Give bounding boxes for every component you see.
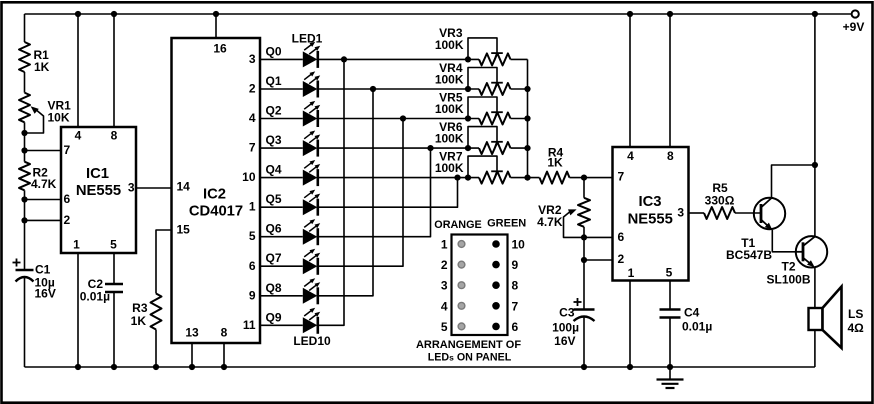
- svg-text:100K: 100K: [435, 161, 464, 175]
- svg-text:5: 5: [441, 320, 448, 334]
- wire IC3 pin5 to C4: [669, 281, 671, 310]
- junction VR2/pin6 node: [581, 234, 587, 240]
- wire IC1 pin5 to C2: [113, 253, 115, 284]
- junction VR3 wiper tie: [465, 56, 471, 62]
- svg-text:100µ: 100µ: [552, 321, 579, 335]
- svg-text:4: 4: [627, 149, 634, 163]
- resistor R3 1K: [131, 294, 162, 330]
- junction R3 ground: [153, 364, 159, 370]
- junction IC3 pin8 rail: [667, 11, 673, 17]
- wire IC1 pin8 to rail: [113, 14, 115, 127]
- junction pin8 rail: [111, 11, 117, 17]
- wire T1 collector to +9V bus: [772, 165, 815, 198]
- LED2: [303, 71, 320, 97]
- svg-text:LED1: LED1: [292, 32, 323, 46]
- wire pin6 node down to pin2 node: [583, 237, 585, 260]
- svg-text:7: 7: [64, 143, 71, 157]
- junction VR7 wiper tie: [465, 175, 471, 181]
- svg-text:10: 10: [242, 170, 256, 184]
- wire R1 to VR1: [24, 72, 26, 93]
- wire pin6 to node: [25, 199, 62, 201]
- svg-text:16V: 16V: [554, 334, 575, 348]
- wire ground rail: [25, 366, 815, 368]
- junction pin7 tap: [21, 147, 27, 153]
- junction pair tap Q4/Q5: [454, 175, 460, 181]
- wire LED3 cathode to VR5: [319, 118, 479, 120]
- svg-text:4Ω: 4Ω: [848, 321, 865, 335]
- wire pin2 node to IC3 pin2: [584, 259, 613, 261]
- wire T1 emitter to T2 base: [772, 230, 796, 252]
- svg-text:ARRANGEMENT OF: ARRANGEMENT OF: [416, 339, 521, 351]
- resistor R5 330ohm: [704, 181, 735, 219]
- wire IC2 output to LED1: [260, 58, 303, 60]
- svg-text:Q8: Q8: [266, 281, 282, 295]
- svg-text:NE555: NE555: [628, 212, 673, 228]
- svg-text:2: 2: [441, 258, 448, 272]
- svg-text:0.01µ: 0.01µ: [80, 290, 110, 304]
- panel orange LED 1: [458, 241, 465, 248]
- wire LED4 cathode to VR6: [319, 147, 479, 149]
- resistor R2 4.7K: [19, 162, 57, 191]
- svg-text:3: 3: [128, 181, 135, 195]
- LED10: [293, 308, 331, 348]
- svg-text:Q6: Q6: [266, 222, 282, 236]
- wire LED7 cathode up to Q3 row: [319, 148, 431, 237]
- svg-text:6: 6: [512, 320, 519, 334]
- svg-text:IC3: IC3: [638, 194, 661, 210]
- wire R3 to ground: [155, 330, 157, 368]
- svg-text:LEDs ON PANEL: LEDs ON PANEL: [428, 352, 512, 364]
- junction pair tap Q3/Q6: [427, 145, 433, 151]
- svg-text:7: 7: [618, 170, 625, 184]
- potentiometer VR6 100K: [435, 120, 511, 154]
- svg-text:9: 9: [512, 258, 519, 272]
- svg-text:Q9: Q9: [266, 310, 282, 324]
- junction bus rail: [812, 11, 818, 17]
- wire IC3 pin1 to ground: [629, 281, 631, 368]
- wire VR output bus: [527, 59, 529, 177]
- panel green LED 7: [492, 302, 500, 310]
- wire VR1 to R2 (junctions at wiper and pin7 tap): [24, 122, 26, 161]
- svg-text:Q3: Q3: [266, 133, 282, 147]
- wire IC2 output to LED4: [260, 147, 303, 149]
- panel orange LED 2: [458, 261, 465, 268]
- svg-text:8: 8: [512, 279, 519, 293]
- svg-text:4: 4: [441, 299, 448, 313]
- wire R4 to IC3 pin7: [570, 177, 613, 179]
- junction pin16 rail: [213, 11, 219, 17]
- svg-text:LED10: LED10: [293, 334, 331, 348]
- svg-text:2: 2: [618, 252, 625, 266]
- wire IC3 pin4 to rail: [629, 14, 631, 147]
- wire IC1 pin4 to rail: [77, 14, 79, 127]
- speaker LS 4ohm: [809, 287, 865, 349]
- svg-text:1: 1: [73, 238, 80, 252]
- svg-text:6: 6: [618, 230, 625, 244]
- wire IC2 output to LED2: [260, 88, 303, 90]
- svg-text:ORANGE: ORANGE: [434, 219, 481, 231]
- junction VR4 wiper tie: [465, 86, 471, 92]
- wire LED6 cathode up to Q4 row: [319, 178, 458, 208]
- junction VR6 output bus: [524, 145, 530, 151]
- svg-text:13: 13: [185, 326, 199, 340]
- resistor R4 1K: [540, 146, 570, 184]
- LED9: [303, 278, 320, 304]
- junction IC3 pin1 ground: [627, 364, 633, 370]
- wire VR7 output to R4: [511, 177, 540, 179]
- junction pin6 tap: [21, 196, 27, 202]
- transistor T2 SL100B: [766, 236, 827, 286]
- svg-text:Q1: Q1: [266, 74, 282, 88]
- wire R5 to T1 base: [735, 212, 761, 214]
- svg-text:SL100B: SL100B: [766, 273, 810, 287]
- potentiometer VR1 10K: [19, 93, 71, 133]
- potentiometer VR5 100K: [435, 90, 511, 124]
- junction VR6 wiper tie: [465, 145, 471, 151]
- junction R4 / VR2 node: [581, 175, 587, 181]
- svg-text:BC547B: BC547B: [726, 248, 772, 262]
- wire T2 emitter to speaker: [814, 267, 816, 308]
- wire VR6 output to bus: [511, 147, 528, 149]
- wire VR2 bottom to pin6 node: [583, 227, 585, 238]
- svg-text:11: 11: [243, 318, 256, 332]
- svg-text:T2: T2: [781, 260, 795, 274]
- wire IC2 output to LED6: [260, 206, 303, 208]
- wire pin7 to R1/R2 node: [25, 150, 62, 152]
- wire left rail top segment: [24, 14, 26, 42]
- svg-text:4: 4: [75, 129, 82, 143]
- svg-text:Q5: Q5: [266, 192, 282, 206]
- svg-text:9: 9: [249, 288, 256, 302]
- LED5: [303, 160, 320, 186]
- wire IC2 output to LED3: [260, 118, 303, 120]
- junction pair tap Q2/Q7: [400, 115, 406, 121]
- LED3: [303, 101, 320, 127]
- svg-text:7: 7: [249, 141, 256, 155]
- panel green LED 10: [492, 240, 500, 248]
- svg-text:5: 5: [666, 266, 673, 280]
- svg-text:5: 5: [110, 238, 117, 252]
- svg-text:C4: C4: [684, 306, 700, 320]
- junction pin4 rail: [75, 11, 81, 17]
- svg-text:330Ω: 330Ω: [705, 194, 735, 208]
- wire LED9 cathode up to Q1 row: [319, 89, 373, 296]
- svg-text:IC2: IC2: [203, 187, 226, 203]
- ground symbol: [657, 367, 684, 388]
- svg-text:IC1: IC1: [86, 166, 109, 182]
- svg-text:8: 8: [111, 129, 118, 143]
- wire speaker to ground rail: [814, 330, 816, 367]
- potentiometer VR4 100K: [435, 61, 511, 95]
- IC2 CD4017: [172, 38, 261, 343]
- junction VR5 wiper tie: [465, 115, 471, 121]
- svg-text:10: 10: [512, 238, 526, 252]
- svg-text:100K: 100K: [435, 38, 464, 52]
- wire C1 to ground rail: [24, 278, 26, 367]
- svg-text:6: 6: [249, 259, 256, 273]
- capacitor C1 10u 16V electrolytic: [13, 259, 56, 301]
- wire VR3 output to bus: [511, 58, 528, 60]
- LED1: [292, 32, 323, 68]
- wire IC2 pin15 to R3: [156, 230, 172, 294]
- wire LED5 cathode to VR7: [319, 177, 479, 179]
- wire LED2 cathode to VR4: [319, 88, 479, 90]
- junction pair tap Q0/Q9: [341, 56, 347, 62]
- wire IC2 output to LED8: [260, 265, 303, 267]
- wire VR5 output to bus: [511, 118, 528, 120]
- svg-text:C1: C1: [35, 263, 51, 277]
- junction pin2 node: [581, 257, 587, 263]
- junction C4 ground: [667, 364, 673, 370]
- capacitor C4 0.01u: [660, 306, 713, 334]
- svg-text:2: 2: [64, 213, 71, 227]
- LED8: [303, 249, 320, 275]
- wire IC3 pin8 to rail: [669, 14, 671, 147]
- svg-text:3: 3: [677, 206, 684, 220]
- svg-text:3: 3: [249, 52, 256, 66]
- wire VR4 output to bus: [511, 88, 528, 90]
- wire C2 to ground: [113, 292, 115, 367]
- svg-text:16: 16: [213, 42, 227, 56]
- svg-text:R3: R3: [132, 301, 148, 315]
- svg-text:1K: 1K: [34, 60, 50, 74]
- junction pin13 ground: [189, 364, 195, 370]
- wire IC2 output to LED5: [260, 177, 303, 179]
- panel green LED 9: [492, 261, 500, 269]
- svg-text:14: 14: [177, 180, 191, 194]
- junction VR5 output bus: [524, 115, 530, 121]
- wire IC1 pin1 to ground: [77, 253, 79, 367]
- wire IC2 output to LED9: [260, 295, 303, 297]
- wire IC3 pin3 to R5: [689, 212, 705, 214]
- svg-text:1: 1: [249, 200, 256, 214]
- svg-text:1K: 1K: [131, 314, 147, 328]
- LED arrangement panel: [416, 218, 526, 364]
- IC1 NE555: [61, 127, 136, 253]
- junction VR4 output bus: [524, 86, 530, 92]
- junction IC3 pin4 rail: [627, 11, 633, 17]
- wire IC2 pin8 to ground: [223, 343, 225, 367]
- svg-text:GREEN: GREEN: [487, 218, 526, 230]
- wire R2 to C1: [24, 190, 26, 270]
- panel orange LED 3: [458, 282, 465, 289]
- junction pin2 tap: [21, 217, 27, 223]
- junction C2 ground: [111, 364, 117, 370]
- svg-text:16V: 16V: [35, 287, 56, 301]
- junction bus to VR7 row: [524, 175, 530, 181]
- svg-text:5: 5: [249, 229, 256, 243]
- wire +9V bus down to T2 collector: [814, 14, 816, 237]
- svg-text:4: 4: [249, 111, 256, 125]
- wire pin2 to node: [25, 219, 62, 221]
- potentiometer VR7 100K: [435, 149, 511, 183]
- wire IC2 output to LED7: [260, 236, 303, 238]
- svg-text:6: 6: [64, 192, 71, 206]
- junction VR1 wiper node: [21, 130, 27, 136]
- svg-text:8: 8: [221, 326, 228, 340]
- panel orange LED 4: [458, 302, 465, 309]
- node +9V terminal: [843, 10, 865, 34]
- transistor T1 BC547B: [726, 198, 785, 262]
- svg-text:8: 8: [667, 149, 674, 163]
- svg-text:1: 1: [441, 238, 448, 252]
- svg-text:100K: 100K: [435, 102, 464, 116]
- svg-text:100K: 100K: [435, 73, 464, 87]
- junction pin8 ground: [221, 364, 227, 370]
- junction T1 collector bus: [812, 162, 818, 168]
- wire pin6 node to IC3 pin6: [584, 236, 613, 238]
- wire LED8 cathode up to Q2 row: [319, 119, 403, 267]
- svg-text:Q0: Q0: [266, 44, 282, 58]
- wire IC2 output to LED10: [260, 324, 303, 326]
- svg-text:Q7: Q7: [266, 251, 282, 265]
- svg-text:2: 2: [249, 82, 256, 96]
- capacitor C3 100u 16V electrolytic: [552, 298, 594, 348]
- LED4: [303, 131, 320, 157]
- junction pair tap Q1/Q8: [370, 86, 376, 92]
- svg-text:15: 15: [177, 223, 191, 237]
- wire C4 to ground: [669, 318, 671, 368]
- wire LED10 cathode up to Q0 row: [319, 59, 344, 325]
- wire C3 to ground: [583, 317, 585, 367]
- svg-text:+9V: +9V: [843, 20, 865, 34]
- svg-text:7: 7: [512, 299, 519, 313]
- panel green LED 8: [492, 281, 500, 289]
- wire +9V supply rail: [25, 13, 852, 15]
- svg-text:10K: 10K: [48, 111, 70, 125]
- panel green LED 6: [492, 323, 500, 331]
- svg-text:NE555: NE555: [76, 183, 121, 199]
- wire pin7 node down to VR2: [583, 178, 585, 198]
- svg-text:3: 3: [441, 279, 448, 293]
- svg-text:1K: 1K: [547, 156, 563, 170]
- panel orange LED 5: [458, 323, 465, 330]
- svg-text:0.01µ: 0.01µ: [682, 320, 712, 334]
- potentiometer VR2 4.7K: [537, 198, 590, 238]
- LED6: [303, 190, 320, 216]
- wire IC2 pin13 to ground: [191, 343, 193, 367]
- IC3 NE555: [613, 147, 689, 281]
- svg-text:4.7K: 4.7K: [31, 177, 57, 191]
- svg-text:C3: C3: [559, 306, 575, 320]
- junction pin1 ground: [75, 364, 81, 370]
- LED7: [303, 219, 320, 245]
- svg-text:CD4017: CD4017: [189, 204, 243, 220]
- svg-text:Q4: Q4: [266, 163, 282, 177]
- svg-text:LS: LS: [848, 307, 863, 321]
- svg-text:4.7K: 4.7K: [537, 215, 563, 229]
- wire LED1 cathode to VR3: [319, 58, 479, 60]
- wire IC2 pin16 to rail: [215, 14, 217, 38]
- wire pin2 node down to C3: [583, 260, 585, 310]
- svg-text:Q2: Q2: [266, 104, 282, 118]
- junction C3 ground: [581, 364, 587, 370]
- potentiometer VR3 100K: [435, 26, 511, 66]
- capacitor C2 0.01u: [80, 277, 123, 304]
- svg-text:100K: 100K: [435, 132, 464, 146]
- svg-text:1: 1: [628, 266, 635, 280]
- resistor R1 1K: [19, 42, 50, 74]
- wire IC1 pin3 to IC2 pin14: [136, 187, 172, 189]
